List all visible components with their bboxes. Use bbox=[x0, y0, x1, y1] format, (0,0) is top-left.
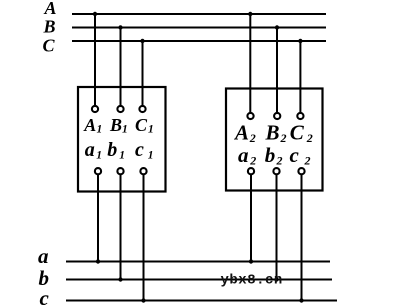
wire B to terminal B1 bbox=[120, 28, 122, 106]
transformer box T1 bbox=[78, 87, 166, 192]
terminal C2 bbox=[297, 113, 303, 119]
svg-text:C: C bbox=[43, 35, 56, 55]
terminal c1 bbox=[140, 168, 146, 174]
terminal c2 bbox=[298, 168, 304, 174]
svg-text:1: 1 bbox=[97, 123, 103, 135]
wire C to terminal C1 bbox=[142, 41, 144, 106]
junction B-T2 bbox=[275, 25, 279, 29]
terminal A2 bbox=[247, 113, 253, 119]
phase line A bbox=[72, 13, 326, 15]
terminal A1 bbox=[92, 106, 98, 112]
svg-text:2: 2 bbox=[306, 131, 313, 145]
pin label b2 bbox=[265, 143, 283, 168]
pin label A1 bbox=[83, 115, 102, 136]
terminal b2 bbox=[273, 168, 279, 174]
wire terminal c2 to line c bbox=[301, 174, 303, 300]
junction b-T1 bbox=[118, 277, 122, 281]
junction C-T1 bbox=[140, 39, 144, 43]
pin label B1 bbox=[109, 115, 128, 136]
svg-text:a: a bbox=[38, 244, 49, 268]
svg-text:a: a bbox=[85, 139, 95, 161]
pin label A2 bbox=[233, 121, 256, 146]
svg-text:a: a bbox=[238, 143, 249, 167]
wire A to terminal A1 bbox=[94, 14, 96, 106]
pin label a2 bbox=[238, 143, 256, 168]
svg-text:ybx8.cn: ybx8.cn bbox=[221, 273, 283, 289]
junction a-T2 bbox=[249, 259, 253, 263]
svg-text:2: 2 bbox=[304, 153, 311, 167]
wire B to terminal B2 bbox=[276, 28, 278, 113]
svg-text:b: b bbox=[265, 143, 276, 167]
svg-text:2: 2 bbox=[249, 131, 256, 145]
wire terminal a1 to line a bbox=[97, 174, 99, 261]
svg-text:B: B bbox=[265, 121, 280, 145]
svg-text:A: A bbox=[233, 121, 249, 145]
pin label c2 bbox=[290, 143, 311, 168]
junction a-T1 bbox=[96, 259, 100, 263]
svg-text:A: A bbox=[83, 115, 96, 135]
terminal B1 bbox=[117, 106, 123, 112]
svg-text:A: A bbox=[44, 0, 57, 18]
wire terminal c1 to line c bbox=[143, 174, 145, 300]
svg-text:C: C bbox=[290, 121, 305, 145]
pin label a1 bbox=[85, 139, 102, 162]
svg-text:1: 1 bbox=[148, 123, 154, 135]
junction A-T2 bbox=[248, 12, 252, 16]
svg-text:b: b bbox=[107, 139, 117, 161]
terminal a1 bbox=[95, 168, 101, 174]
svg-text:C: C bbox=[135, 115, 148, 135]
pin label B2 bbox=[265, 121, 287, 146]
junction B-T1 bbox=[118, 25, 122, 29]
svg-text:1: 1 bbox=[122, 123, 128, 135]
svg-text:c: c bbox=[40, 286, 50, 308]
pin label b1 bbox=[107, 139, 125, 162]
junction c-T2 bbox=[299, 298, 303, 302]
phase line B bbox=[72, 27, 326, 29]
terminal C1 bbox=[139, 106, 145, 112]
bus line b bbox=[66, 279, 332, 281]
wire terminal b2 to line b bbox=[276, 174, 278, 279]
terminal a2 bbox=[248, 168, 254, 174]
terminal b1 bbox=[117, 168, 123, 174]
svg-text:2: 2 bbox=[280, 131, 287, 145]
wire terminal a2 to line a bbox=[250, 174, 252, 261]
svg-text:1: 1 bbox=[96, 149, 102, 161]
svg-text:c: c bbox=[135, 139, 144, 161]
bus line c bbox=[66, 300, 337, 302]
junction C-T2 bbox=[298, 39, 302, 43]
svg-text:1: 1 bbox=[119, 149, 125, 161]
junction A-T1 bbox=[93, 12, 97, 16]
wire C to terminal C2 bbox=[299, 41, 301, 112]
pin label c1 bbox=[135, 139, 154, 162]
terminal B2 bbox=[274, 113, 280, 119]
svg-text:c: c bbox=[290, 143, 300, 167]
svg-text:1: 1 bbox=[148, 149, 154, 161]
transformer box T2 bbox=[226, 89, 323, 191]
bus line a bbox=[66, 261, 330, 263]
svg-text:B: B bbox=[43, 17, 56, 37]
wire A to terminal A2 bbox=[249, 14, 251, 112]
phase line C bbox=[72, 40, 326, 42]
junction c-T1 bbox=[141, 298, 145, 302]
svg-text:2: 2 bbox=[249, 153, 256, 167]
pin label C2 bbox=[290, 121, 313, 146]
wire terminal b1 to line b bbox=[120, 174, 122, 279]
svg-text:B: B bbox=[109, 115, 122, 135]
pin label C1 bbox=[135, 115, 154, 136]
junction b-T2 bbox=[274, 277, 278, 281]
svg-text:2: 2 bbox=[276, 153, 283, 167]
